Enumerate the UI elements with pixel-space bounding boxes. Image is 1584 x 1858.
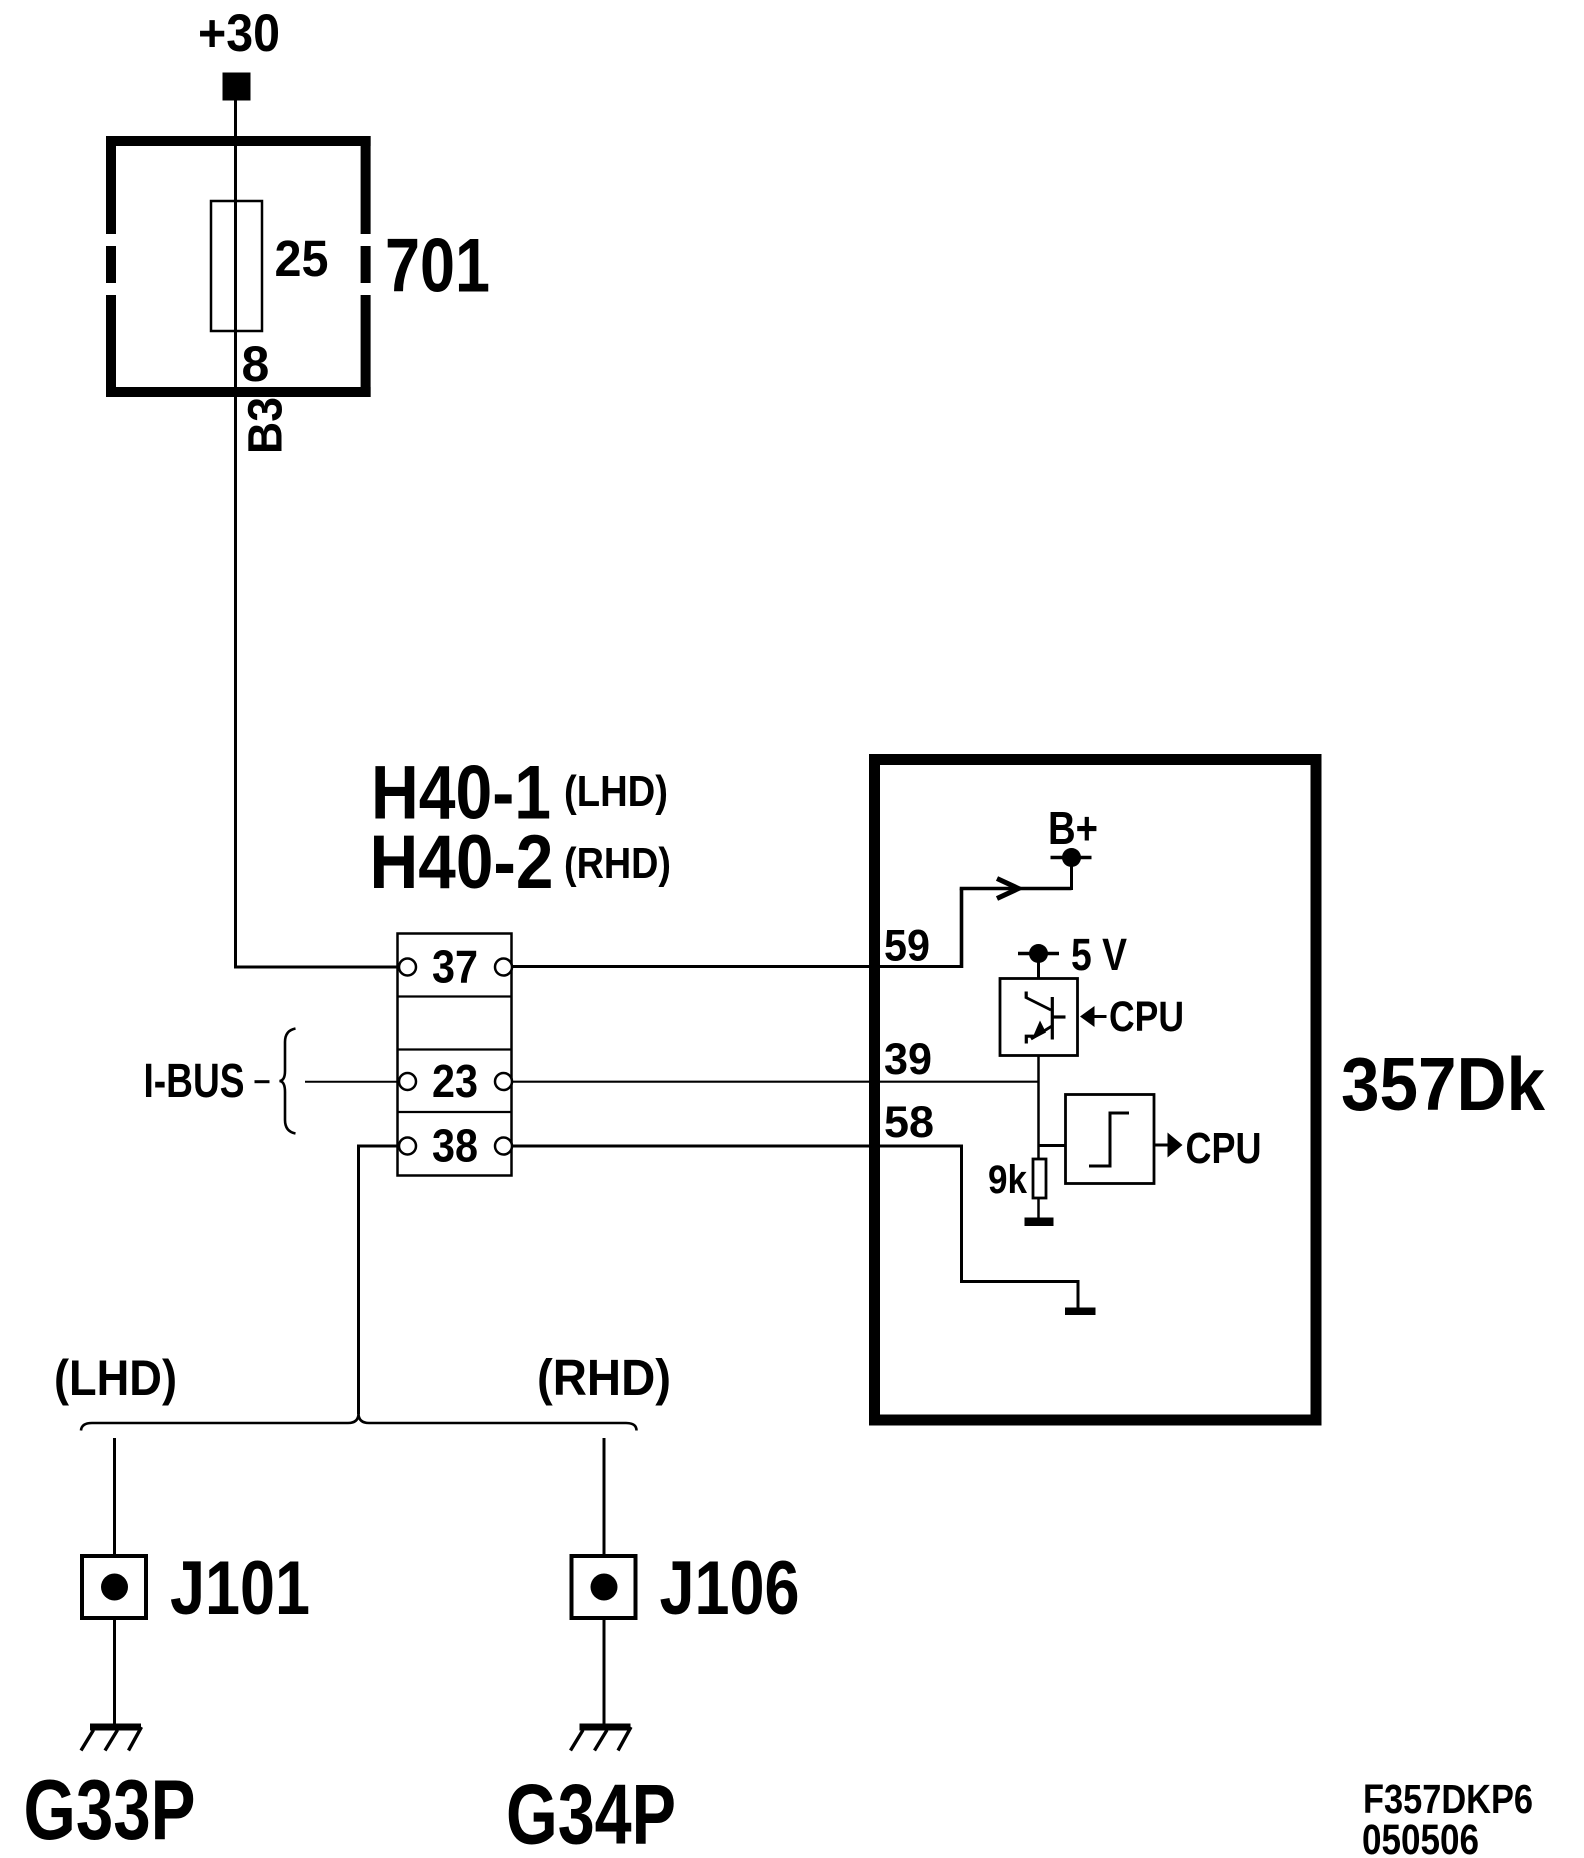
svg-text:CPU: CPU xyxy=(1186,1124,1262,1173)
svg-text:J101: J101 xyxy=(170,1546,310,1631)
svg-text:050506: 050506 xyxy=(1362,1816,1479,1858)
svg-text:(RHD): (RHD) xyxy=(564,839,671,888)
svg-text:B3: B3 xyxy=(239,397,293,454)
svg-text:37: 37 xyxy=(432,941,478,993)
svg-text:25: 25 xyxy=(275,230,329,287)
svg-text:B+: B+ xyxy=(1048,802,1098,854)
svg-text:9k: 9k xyxy=(988,1158,1028,1202)
svg-text:357Dk: 357Dk xyxy=(1341,1042,1546,1126)
svg-text:59: 59 xyxy=(884,922,930,971)
svg-text:H40-2: H40-2 xyxy=(370,820,554,905)
svg-text:G33P: G33P xyxy=(24,1763,196,1858)
svg-text:39: 39 xyxy=(884,1035,932,1084)
svg-text:8: 8 xyxy=(242,336,270,392)
svg-text:5 V: 5 V xyxy=(1071,929,1128,980)
svg-text:(LHD): (LHD) xyxy=(564,767,668,816)
svg-text:58: 58 xyxy=(884,1098,934,1147)
svg-text:23: 23 xyxy=(432,1055,478,1107)
svg-text:(RHD): (RHD) xyxy=(537,1349,671,1406)
svg-text:I-BUS: I-BUS xyxy=(144,1055,245,1108)
svg-text:701: 701 xyxy=(385,224,490,309)
svg-text:38: 38 xyxy=(432,1120,478,1172)
svg-text:J106: J106 xyxy=(660,1546,800,1631)
svg-text:+30: +30 xyxy=(198,4,280,63)
svg-text:(LHD): (LHD) xyxy=(54,1350,177,1406)
svg-text:G34P: G34P xyxy=(506,1768,676,1858)
svg-text:CPU: CPU xyxy=(1109,994,1184,1041)
